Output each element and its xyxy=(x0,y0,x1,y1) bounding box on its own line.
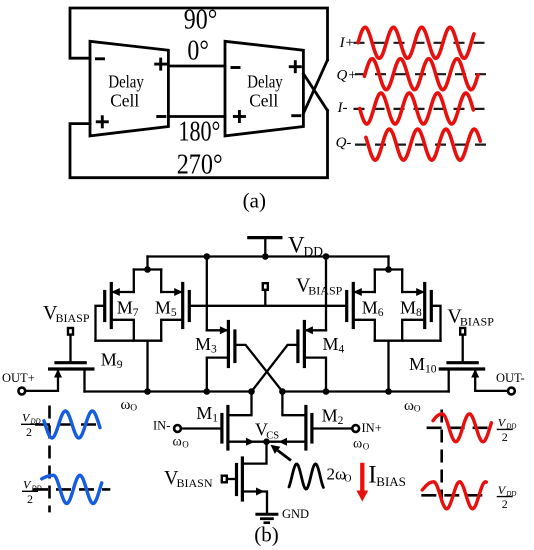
svg-text:(a): (a) xyxy=(243,188,266,212)
svg-text:2: 2 xyxy=(502,497,508,511)
svg-text:ω: ω xyxy=(404,398,414,414)
svg-text:M: M xyxy=(195,334,211,354)
svg-text:V: V xyxy=(288,233,305,258)
svg-text:O: O xyxy=(130,404,137,414)
svg-text:5: 5 xyxy=(171,307,177,319)
svg-text:2: 2 xyxy=(502,430,508,444)
svg-text:ω: ω xyxy=(353,437,362,452)
svg-text:BIASP: BIASP xyxy=(308,284,342,298)
svg-text:M: M xyxy=(322,406,338,426)
svg-text:M: M xyxy=(117,297,133,317)
svg-text:BIASP: BIASP xyxy=(56,311,90,325)
svg-text:9: 9 xyxy=(117,359,123,371)
svg-text:ω: ω xyxy=(121,397,131,413)
svg-text:M: M xyxy=(101,350,117,370)
svg-text:M: M xyxy=(155,297,171,317)
svg-text:Q+: Q+ xyxy=(337,68,358,84)
svg-text:I+: I+ xyxy=(339,35,355,51)
svg-text:O: O xyxy=(182,440,189,450)
svg-text:O: O xyxy=(344,474,351,485)
svg-text:M: M xyxy=(362,297,378,317)
svg-text:2: 2 xyxy=(26,425,32,439)
svg-text:BIAS: BIAS xyxy=(376,474,406,489)
svg-text:GND: GND xyxy=(282,507,309,521)
svg-text:10: 10 xyxy=(425,364,437,376)
svg-text:7: 7 xyxy=(133,307,139,319)
svg-text:CS: CS xyxy=(266,431,279,442)
svg-text:M: M xyxy=(400,297,416,317)
svg-text:Cell: Cell xyxy=(110,91,139,111)
svg-text:2: 2 xyxy=(27,492,33,506)
svg-text:4: 4 xyxy=(339,344,345,356)
svg-text:I-: I- xyxy=(337,100,348,116)
svg-text:3: 3 xyxy=(211,344,217,356)
svg-text:IN+: IN+ xyxy=(362,421,382,435)
svg-text:IN-: IN- xyxy=(153,419,170,433)
svg-text:90°: 90° xyxy=(184,5,218,36)
svg-text:Delay: Delay xyxy=(108,71,144,91)
svg-text:Q-: Q- xyxy=(336,135,352,151)
svg-text:1: 1 xyxy=(212,413,218,425)
svg-text:Delay: Delay xyxy=(247,71,283,91)
svg-text:O: O xyxy=(414,405,421,415)
svg-text:BIASP: BIASP xyxy=(460,315,494,329)
svg-text:Cell: Cell xyxy=(249,91,278,111)
svg-text:180°: 180° xyxy=(178,117,220,148)
svg-text:O: O xyxy=(363,442,370,452)
svg-text:0°: 0° xyxy=(187,35,209,66)
svg-text:6: 6 xyxy=(378,307,384,319)
svg-text:OUT-: OUT- xyxy=(496,371,525,385)
svg-text:DD: DD xyxy=(304,244,324,259)
svg-text:M: M xyxy=(323,334,339,354)
svg-text:OUT+: OUT+ xyxy=(2,371,35,385)
svg-text:8: 8 xyxy=(416,307,422,319)
svg-text:2: 2 xyxy=(338,415,344,427)
svg-text:M: M xyxy=(196,403,212,423)
svg-text:270°: 270° xyxy=(177,149,223,180)
svg-text:ω: ω xyxy=(173,435,182,450)
svg-text:BIASN: BIASN xyxy=(177,476,213,490)
svg-text:M: M xyxy=(409,354,425,374)
svg-text:(b): (b) xyxy=(254,523,279,547)
